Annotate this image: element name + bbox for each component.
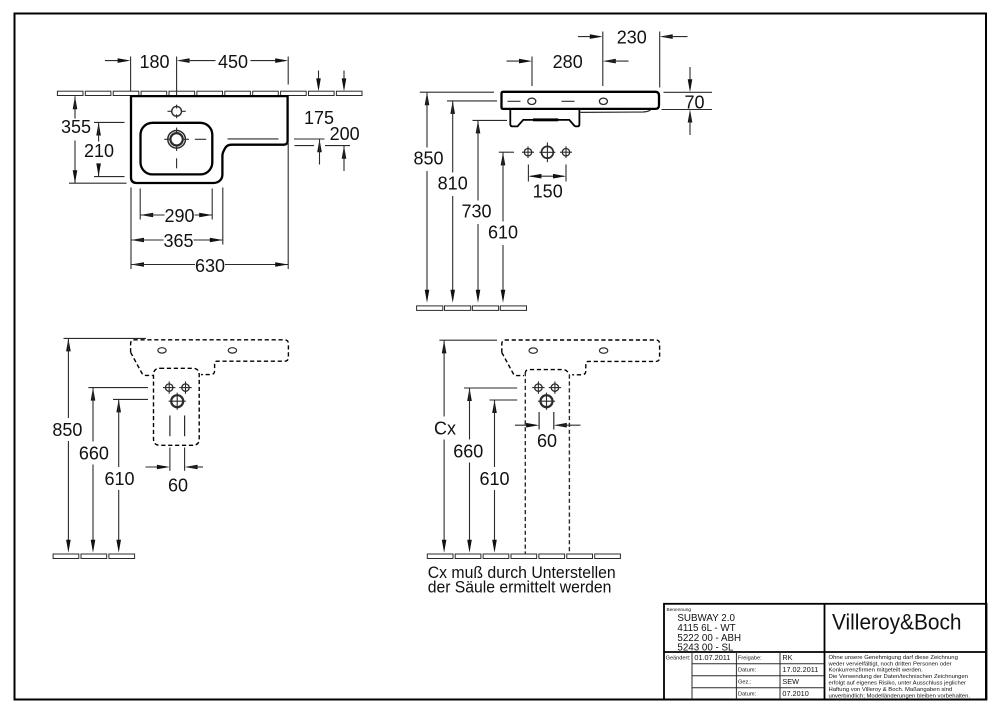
svg-text:180: 180 (139, 52, 169, 72)
svg-text:200: 200 (330, 124, 360, 144)
svg-text:SEW: SEW (782, 677, 799, 686)
svg-text:Geändert:: Geändert: (666, 655, 691, 661)
svg-text:810: 810 (438, 174, 468, 194)
svg-text:730: 730 (461, 202, 491, 222)
svg-text:Cx: Cx (434, 419, 456, 439)
svg-text:Datum:: Datum: (738, 668, 756, 674)
svg-text:erfolgt auf eigenes Risiko, un: erfolgt auf eigenes Risiko, unter Aussch… (829, 681, 967, 687)
svg-text:Freigabe:: Freigabe: (738, 655, 762, 661)
svg-text:610: 610 (479, 469, 509, 489)
svg-text:60: 60 (537, 431, 557, 451)
svg-text:07.2010: 07.2010 (782, 689, 808, 698)
svg-text:Gez.:: Gez.: (738, 680, 752, 686)
svg-text:Die Verwendung der Daten/techn: Die Verwendung der Daten/technischen Zei… (829, 674, 969, 680)
svg-text:17.02.2011: 17.02.2011 (782, 665, 818, 674)
svg-text:01.07.2011: 01.07.2011 (694, 653, 730, 662)
svg-text:280: 280 (553, 52, 583, 72)
svg-text:355: 355 (61, 117, 91, 137)
svg-text:365: 365 (163, 231, 193, 251)
svg-text:60: 60 (168, 476, 188, 496)
svg-text:210: 210 (84, 141, 114, 161)
svg-text:5243 00 - SL: 5243 00 - SL (677, 643, 734, 654)
svg-text:der Säule ermittelt werden: der Säule ermittelt werden (428, 578, 612, 597)
svg-text:Konkurrenzfirmen mitgeteilt we: Konkurrenzfirmen mitgeteilt werden. (829, 668, 924, 674)
svg-text:630: 630 (195, 256, 225, 276)
svg-text:150: 150 (533, 182, 563, 202)
svg-text:unverbindlich; Modelländerunge: unverbindlich; Modelländerungen bleiben … (829, 693, 971, 699)
svg-text:850: 850 (52, 420, 82, 440)
svg-text:RK: RK (782, 653, 792, 662)
svg-text:290: 290 (164, 206, 194, 226)
svg-text:weder vervielfältigt, noch dri: weder vervielfältigt, noch dritten Perso… (828, 661, 952, 667)
svg-text:450: 450 (218, 52, 248, 72)
svg-text:610: 610 (104, 469, 134, 489)
svg-text:850: 850 (413, 149, 443, 169)
svg-text:Datum:: Datum: (738, 692, 756, 698)
svg-text:660: 660 (79, 444, 109, 464)
svg-text:Ohne unsere Genehmigung darf d: Ohne unsere Genehmigung darf diese Zeich… (829, 655, 958, 661)
svg-text:660: 660 (453, 442, 483, 462)
svg-text:Haftung von Villeroy & Boch. M: Haftung von Villeroy & Boch. Maßangaben … (829, 687, 953, 693)
svg-text:610: 610 (488, 223, 518, 243)
svg-text:230: 230 (617, 28, 647, 48)
svg-text:Villeroy&Boch: Villeroy&Boch (832, 609, 962, 634)
